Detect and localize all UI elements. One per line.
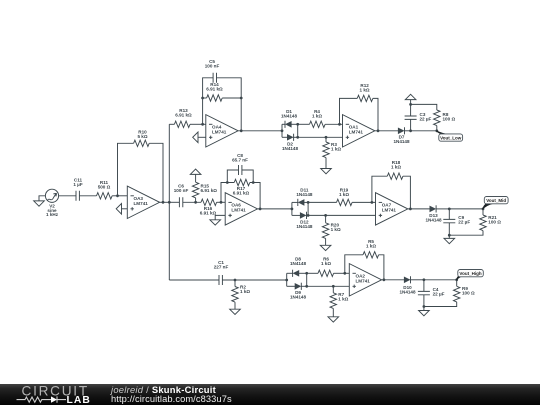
wire OA1 output xyxy=(375,129,398,132)
diode D10 xyxy=(399,276,423,295)
ground at OA4 + input xyxy=(193,132,206,143)
diode D2 xyxy=(282,134,299,151)
diode D7 xyxy=(393,127,410,144)
svg-text:1N4148: 1N4148 xyxy=(282,146,299,151)
capacitor C5 feedback xyxy=(203,59,242,124)
resistor R13 xyxy=(174,108,192,128)
node C4 tap xyxy=(423,278,426,281)
svg-text:1 kHz: 1 kHz xyxy=(46,212,59,217)
diode block 3 right vertical xyxy=(305,272,308,288)
ground at source V2 xyxy=(34,196,46,206)
capacitor C11 xyxy=(73,177,82,201)
diode block 2 left vertical xyxy=(291,202,294,215)
svg-text:6.91 kΩ: 6.91 kΩ xyxy=(201,188,218,193)
resistor R11 xyxy=(97,180,113,199)
svg-text:100 Ω: 100 Ω xyxy=(488,220,501,225)
resistor R18 feedback xyxy=(371,160,411,209)
source V2 xyxy=(45,189,58,217)
wire bus to R13 xyxy=(169,123,174,125)
diode D13 xyxy=(425,205,449,222)
ground flipped up above C3 xyxy=(405,94,416,106)
resistor R6 xyxy=(307,257,350,277)
svg-text:1 kΩ: 1 kΩ xyxy=(360,87,370,92)
capacitor C4 xyxy=(418,280,445,307)
bottom rail to R21 xyxy=(449,231,483,236)
node OA3 output xyxy=(162,201,165,204)
wire xyxy=(190,123,206,125)
resistor R8 xyxy=(411,104,456,130)
wire lower branch to OA2 + xyxy=(307,285,350,287)
svg-text:1 kΩ: 1 kΩ xyxy=(391,165,401,170)
node C9 tap xyxy=(448,208,451,211)
wire top to R9 xyxy=(424,280,457,287)
capacitor C6 xyxy=(174,183,189,207)
op-amp OA2 LM741 xyxy=(349,264,381,296)
diode block right vertical xyxy=(296,123,299,139)
resistor R9 xyxy=(454,286,475,302)
svg-text:22 µF: 22 µF xyxy=(433,292,445,297)
node OA6 inverting input xyxy=(220,201,223,204)
diode block 2 right vertical xyxy=(307,201,310,217)
wire OA4 output xyxy=(238,129,282,132)
resistor R4 xyxy=(298,109,343,128)
diode D9 xyxy=(287,283,307,300)
svg-text:http://circuitlab.com/c833u7s: http://circuitlab.com/c833u7s xyxy=(111,394,232,404)
resistor R2 to ground xyxy=(230,279,251,315)
svg-text:LM741: LM741 xyxy=(134,201,149,206)
resistor R21 xyxy=(480,215,501,231)
resistor R16 xyxy=(200,199,225,215)
svg-text:LM741: LM741 xyxy=(231,208,246,213)
resistor R17 feedback xyxy=(221,179,260,209)
flag Vout_Mid xyxy=(482,197,508,211)
svg-text:1 kΩ: 1 kΩ xyxy=(338,297,348,302)
svg-text:LM741: LM741 xyxy=(212,130,227,135)
capacitor C9 xyxy=(443,209,470,235)
node D7 output xyxy=(409,129,412,132)
wire OA3 output to bus xyxy=(160,201,170,203)
wire xyxy=(79,195,96,197)
node at OA3 inverting input xyxy=(116,194,119,197)
wire lower branch to OA1 + xyxy=(298,136,343,138)
svg-text:100 Ω: 100 Ω xyxy=(462,291,475,296)
svg-text:1N4148: 1N4148 xyxy=(399,290,416,295)
wire OA7 output xyxy=(408,208,430,211)
ground at OA3 + input xyxy=(116,204,127,215)
bus wire vertical xyxy=(168,124,170,280)
svg-text:22 µF: 22 µF xyxy=(458,220,470,225)
svg-text:Vout_Low: Vout_Low xyxy=(440,135,462,140)
op-amp OA6 LM741 xyxy=(225,193,257,225)
resistor R19 xyxy=(308,188,375,206)
svg-text:6.91 kΩ: 6.91 kΩ xyxy=(200,211,217,216)
svg-text:LM741: LM741 xyxy=(356,279,371,284)
op-amp OA1 LM741 xyxy=(343,115,375,147)
diode D8 xyxy=(287,257,307,277)
svg-text:1N4148: 1N4148 xyxy=(296,192,313,197)
svg-text:LM741: LM741 xyxy=(382,208,397,213)
svg-text:Vout_High: Vout_High xyxy=(459,271,481,276)
wire xyxy=(222,279,286,281)
ground below C9 xyxy=(444,234,455,244)
wire bus to C1 xyxy=(169,279,219,281)
svg-text:65.7 nF: 65.7 nF xyxy=(232,157,248,162)
svg-text:6.91 kΩ: 6.91 kΩ xyxy=(206,86,223,91)
svg-text:1 kΩ: 1 kΩ xyxy=(331,147,341,152)
logo schematic squiggle wire xyxy=(17,397,52,402)
svg-text:LAB: LAB xyxy=(67,395,91,405)
wire xyxy=(183,201,201,203)
flag Vout_High xyxy=(455,270,483,282)
svg-text:1 kΩ: 1 kΩ xyxy=(312,114,322,119)
svg-text:100 nF: 100 nF xyxy=(205,63,220,68)
resistor R5 feedback xyxy=(343,239,384,280)
diode block left vertical xyxy=(281,124,284,137)
node OA4 inverting input xyxy=(201,123,204,126)
node bus mid tap xyxy=(168,201,171,204)
wire OA6 output xyxy=(258,208,292,211)
capacitor C8 feedback xyxy=(226,153,255,184)
ground at OA6 + input xyxy=(210,215,225,225)
svg-text:1N4148: 1N4148 xyxy=(425,217,442,222)
svg-text:6.91 kΩ: 6.91 kΩ xyxy=(233,191,250,196)
op-amp OA4 LM741 xyxy=(206,115,238,147)
capacitor C1 xyxy=(214,260,229,285)
svg-text:6.91 kΩ: 6.91 kΩ xyxy=(175,113,192,118)
resistor R12 feedback xyxy=(338,83,378,131)
diode block 3 left vertical xyxy=(285,273,288,286)
svg-text:1 kΩ: 1 kΩ xyxy=(321,261,331,266)
wire OA2 output xyxy=(382,278,405,281)
wire xyxy=(59,195,76,197)
bottom rail to R9 xyxy=(424,302,457,307)
svg-text:1 kΩ: 1 kΩ xyxy=(331,227,341,232)
flag Vout_Low xyxy=(436,130,463,141)
node R15 tap xyxy=(194,201,197,204)
svg-text:1N4148: 1N4148 xyxy=(281,114,298,119)
svg-text:100 nF: 100 nF xyxy=(174,188,189,193)
resistor R20 to ground xyxy=(320,214,341,251)
resistor R10 feedback xyxy=(118,129,164,202)
svg-text:100 Ω: 100 Ω xyxy=(443,116,456,121)
ground below C4 xyxy=(419,305,430,316)
svg-text:22 µF: 22 µF xyxy=(420,116,432,121)
svg-text:1 µF: 1 µF xyxy=(73,182,82,187)
svg-text:1N4148: 1N4148 xyxy=(393,139,410,144)
svg-text:500 Ω: 500 Ω xyxy=(98,184,111,189)
svg-text:1N4148: 1N4148 xyxy=(290,261,307,266)
diode D1 xyxy=(281,109,298,128)
wire bus to C6 xyxy=(169,201,179,203)
svg-text:joelreid / Skunk-Circuit: joelreid / Skunk-Circuit xyxy=(109,384,216,395)
logo diode xyxy=(51,396,57,402)
diode D11 xyxy=(292,188,313,206)
resistor R3 to ground xyxy=(321,136,342,174)
op-amp OA3 LM741 xyxy=(127,186,159,218)
svg-text:1 kΩ: 1 kΩ xyxy=(240,289,250,294)
svg-text:1N4148: 1N4148 xyxy=(296,224,313,229)
wire top to R21 xyxy=(449,209,483,215)
svg-text:1 kΩ: 1 kΩ xyxy=(339,192,349,197)
svg-text:LM741: LM741 xyxy=(349,130,364,135)
svg-text:227 nF: 227 nF xyxy=(214,265,229,270)
wire to output node xyxy=(411,129,439,132)
wire lower branch to OA7 + xyxy=(308,214,375,216)
resistor R14 feedback xyxy=(201,82,242,131)
diode D12 xyxy=(292,212,313,229)
svg-text:1N4148: 1N4148 xyxy=(290,295,307,300)
svg-text:1 kΩ: 1 kΩ xyxy=(366,244,376,249)
wire xyxy=(112,195,127,197)
resistor R7 to ground xyxy=(328,285,349,322)
resistor R15 to flipped ground xyxy=(190,169,217,202)
svg-text:Vout_Mid: Vout_Mid xyxy=(486,198,506,203)
capacitor C3 xyxy=(405,104,432,130)
op-amp OA7 LM741 xyxy=(376,193,408,225)
svg-text:5 kΩ: 5 kΩ xyxy=(137,134,147,139)
